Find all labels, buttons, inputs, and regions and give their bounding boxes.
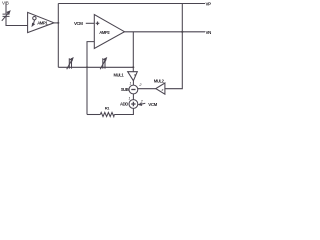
svg-text:VCM: VCM <box>74 21 83 26</box>
capacitor C2 arrow <box>100 59 106 69</box>
wire MUL1 to SUB <box>132 81 134 85</box>
wire AMP2 output down to MUL1 <box>132 32 134 72</box>
svg-text:2: 2 <box>138 83 142 87</box>
wire AMP2 inverting input stub from feedback <box>87 42 94 115</box>
svg-text:VIB: VIB <box>2 0 9 5</box>
subtractor SUB circle <box>129 85 138 94</box>
wire MUL2 input from VN <box>165 4 182 89</box>
wire VIB vertical top <box>5 5 7 14</box>
VCM arrow into ADD <box>141 103 146 104</box>
junction feedback and cap line <box>86 66 88 68</box>
resistor R1 zigzag <box>100 112 114 116</box>
svg-text:2: 2 <box>140 99 144 103</box>
sensor variable capacitor arrow <box>2 12 9 21</box>
junction VN and MUL2 branch <box>181 31 183 33</box>
ADD plus sign <box>131 102 135 106</box>
adder ADD circle <box>129 100 138 109</box>
multiplier MUL2 triangle <box>156 83 165 94</box>
wire AMP1 output <box>54 22 58 24</box>
wire VCM stub <box>86 22 95 24</box>
svg-text:1: 1 <box>128 96 130 100</box>
wire SUB to MUL2 <box>138 88 156 90</box>
svg-text:VN: VN <box>206 30 212 35</box>
wire top output line VP <box>58 3 205 5</box>
sensor variable capacitor plates <box>3 14 10 16</box>
svg-text:MUL1: MUL1 <box>114 73 125 78</box>
svg-text:AMP1: AMP1 <box>37 20 48 25</box>
op-amp AMP2 <box>94 15 124 49</box>
wire capacitor line <box>58 66 133 68</box>
SUB minus sign <box>131 89 135 91</box>
junction AMP1 output node <box>57 22 59 24</box>
svg-text:VP: VP <box>206 2 212 7</box>
wire SUB to ADD <box>132 94 134 100</box>
svg-text:x: x <box>161 88 165 92</box>
svg-text:R1: R1 <box>105 105 110 110</box>
AMP1 internal phase glyph <box>33 17 36 20</box>
AMP2 plus input mark <box>96 22 100 26</box>
capacitor C2 plates <box>103 58 105 68</box>
wire sensor to AMP1 input <box>6 16 28 25</box>
multiplier MUL1 triangle <box>128 72 138 81</box>
svg-text:ADD: ADD <box>120 102 128 107</box>
wire R1 to feedback vertical <box>87 114 100 116</box>
junction cap line right end <box>132 66 134 68</box>
capacitor C1 plates <box>69 58 71 68</box>
wire AMP2 output line VN <box>125 31 206 33</box>
wire ADD output down and left <box>114 108 133 114</box>
svg-text:MUL2: MUL2 <box>154 79 165 84</box>
wire vertical AMP1-output to top line and cap line <box>57 4 59 68</box>
svg-text:1: 1 <box>129 81 131 85</box>
svg-text:VCM: VCM <box>148 102 157 107</box>
svg-text:AMP2: AMP2 <box>99 30 110 35</box>
svg-text:SUB: SUB <box>121 87 129 92</box>
capacitor C1 arrow <box>67 59 73 69</box>
op-amp AMP1 <box>28 12 54 32</box>
